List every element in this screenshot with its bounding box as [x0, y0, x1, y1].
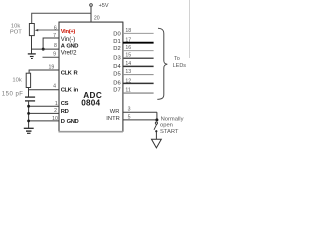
wire cap bottom to ground	[28, 101, 30, 128]
svg-text:D4: D4	[113, 64, 121, 70]
svg-text:+5V: +5V	[99, 3, 109, 9]
wire D2 pin 16	[123, 50, 154, 52]
svg-text:CS: CS	[61, 101, 69, 107]
wire pin 2 RD	[29, 112, 59, 114]
wire pin 7 Vin(-)	[43, 38, 59, 49]
svg-text:open: open	[160, 122, 173, 128]
right data pin labels D0-D7	[113, 31, 121, 93]
capacitor C1 150 pF	[2, 92, 35, 101]
wiper wire to pin 6	[37, 29, 60, 31]
junction dot RD	[27, 112, 30, 115]
wire pin 10 D GND	[29, 120, 59, 122]
svg-text:D1: D1	[113, 39, 120, 45]
svg-text:0804: 0804	[81, 98, 100, 107]
svg-text:150 pF: 150 pF	[2, 92, 24, 98]
svg-text:4: 4	[53, 84, 56, 90]
svg-text:10: 10	[52, 116, 58, 122]
svg-text:D GND: D GND	[61, 119, 79, 125]
svg-text:19: 19	[49, 65, 55, 71]
svg-text:7: 7	[53, 33, 56, 39]
wire to switch	[156, 112, 158, 120]
svg-text:9: 9	[53, 52, 56, 58]
wire POT top to +5V	[32, 13, 91, 23]
wire pin 19 CLK R	[29, 70, 59, 73]
wire D5 pin 13	[123, 74, 154, 76]
switch S1 normally open START	[154, 122, 157, 139]
junction dot CS	[27, 105, 30, 108]
brace	[157, 28, 167, 99]
switch label	[160, 116, 184, 135]
WR INTR labels	[106, 109, 120, 122]
wire pin 5 INTR	[123, 119, 157, 121]
potentiometer R1 10k POT	[10, 24, 34, 36]
wire D4 pin 14	[123, 65, 154, 67]
svg-text:A GND: A GND	[61, 43, 79, 49]
svg-text:Vref/2: Vref/2	[61, 50, 77, 56]
svg-text:D3: D3	[113, 56, 120, 62]
ground G1	[28, 54, 36, 59]
junction dot	[42, 48, 45, 51]
junction dot D GND	[27, 120, 30, 123]
svg-text:START: START	[160, 129, 179, 135]
svg-text:Vin(+): Vin(+)	[61, 29, 76, 35]
wire POT bottom to ground	[31, 36, 33, 54]
svg-text:10k: 10k	[12, 78, 21, 84]
svg-text:CLK in: CLK in	[61, 88, 79, 94]
svg-text:POT: POT	[10, 30, 22, 36]
svg-text:2: 2	[54, 108, 57, 114]
svg-text:D6: D6	[113, 81, 120, 87]
wire resistor bottom	[28, 88, 30, 98]
svg-text:RD: RD	[61, 109, 69, 115]
right pin numbers	[125, 28, 131, 120]
wire D0 pin 18	[123, 32, 154, 34]
junction dot	[155, 118, 158, 121]
IC U1 ADC 0804 body	[59, 22, 123, 132]
wire D7 pin 11	[123, 92, 154, 94]
svg-text:D2: D2	[113, 46, 120, 52]
wire D6 pin 12	[123, 82, 154, 84]
resistor R2 10k	[12, 73, 30, 87]
wire pin 4 CLK in	[29, 89, 60, 91]
svg-text:INTR: INTR	[106, 116, 120, 122]
wire pin20 vertical	[90, 7, 92, 23]
svg-text:WR: WR	[110, 109, 120, 115]
svg-text:D7: D7	[113, 88, 120, 94]
wire D1 pin 17	[123, 42, 154, 44]
+5V terminal	[90, 3, 109, 9]
wire pin 1 CS	[29, 105, 59, 107]
wire pin 3 WR	[123, 111, 157, 113]
wire D3 pin 15	[123, 57, 154, 59]
wire pin 9 stub Vref/2	[43, 56, 60, 58]
svg-text:LEDs: LEDs	[173, 63, 187, 69]
wire pin 8 A GND	[32, 48, 60, 50]
faint page edge line	[189, 0, 191, 58]
ground G2	[24, 128, 34, 133]
svg-text:D0: D0	[113, 31, 120, 37]
svg-text:8: 8	[54, 43, 57, 49]
svg-text:Vin(-): Vin(-)	[61, 37, 76, 43]
left pin labels inside IC	[61, 29, 79, 125]
ground triangle G3	[152, 139, 162, 148]
svg-text:D5: D5	[113, 72, 120, 78]
svg-text:6: 6	[54, 25, 57, 31]
svg-text:To: To	[174, 56, 180, 62]
left pin numbers	[49, 25, 58, 122]
svg-text:20: 20	[94, 15, 100, 21]
svg-text:1: 1	[55, 101, 58, 107]
svg-text:CLK R: CLK R	[61, 70, 79, 76]
